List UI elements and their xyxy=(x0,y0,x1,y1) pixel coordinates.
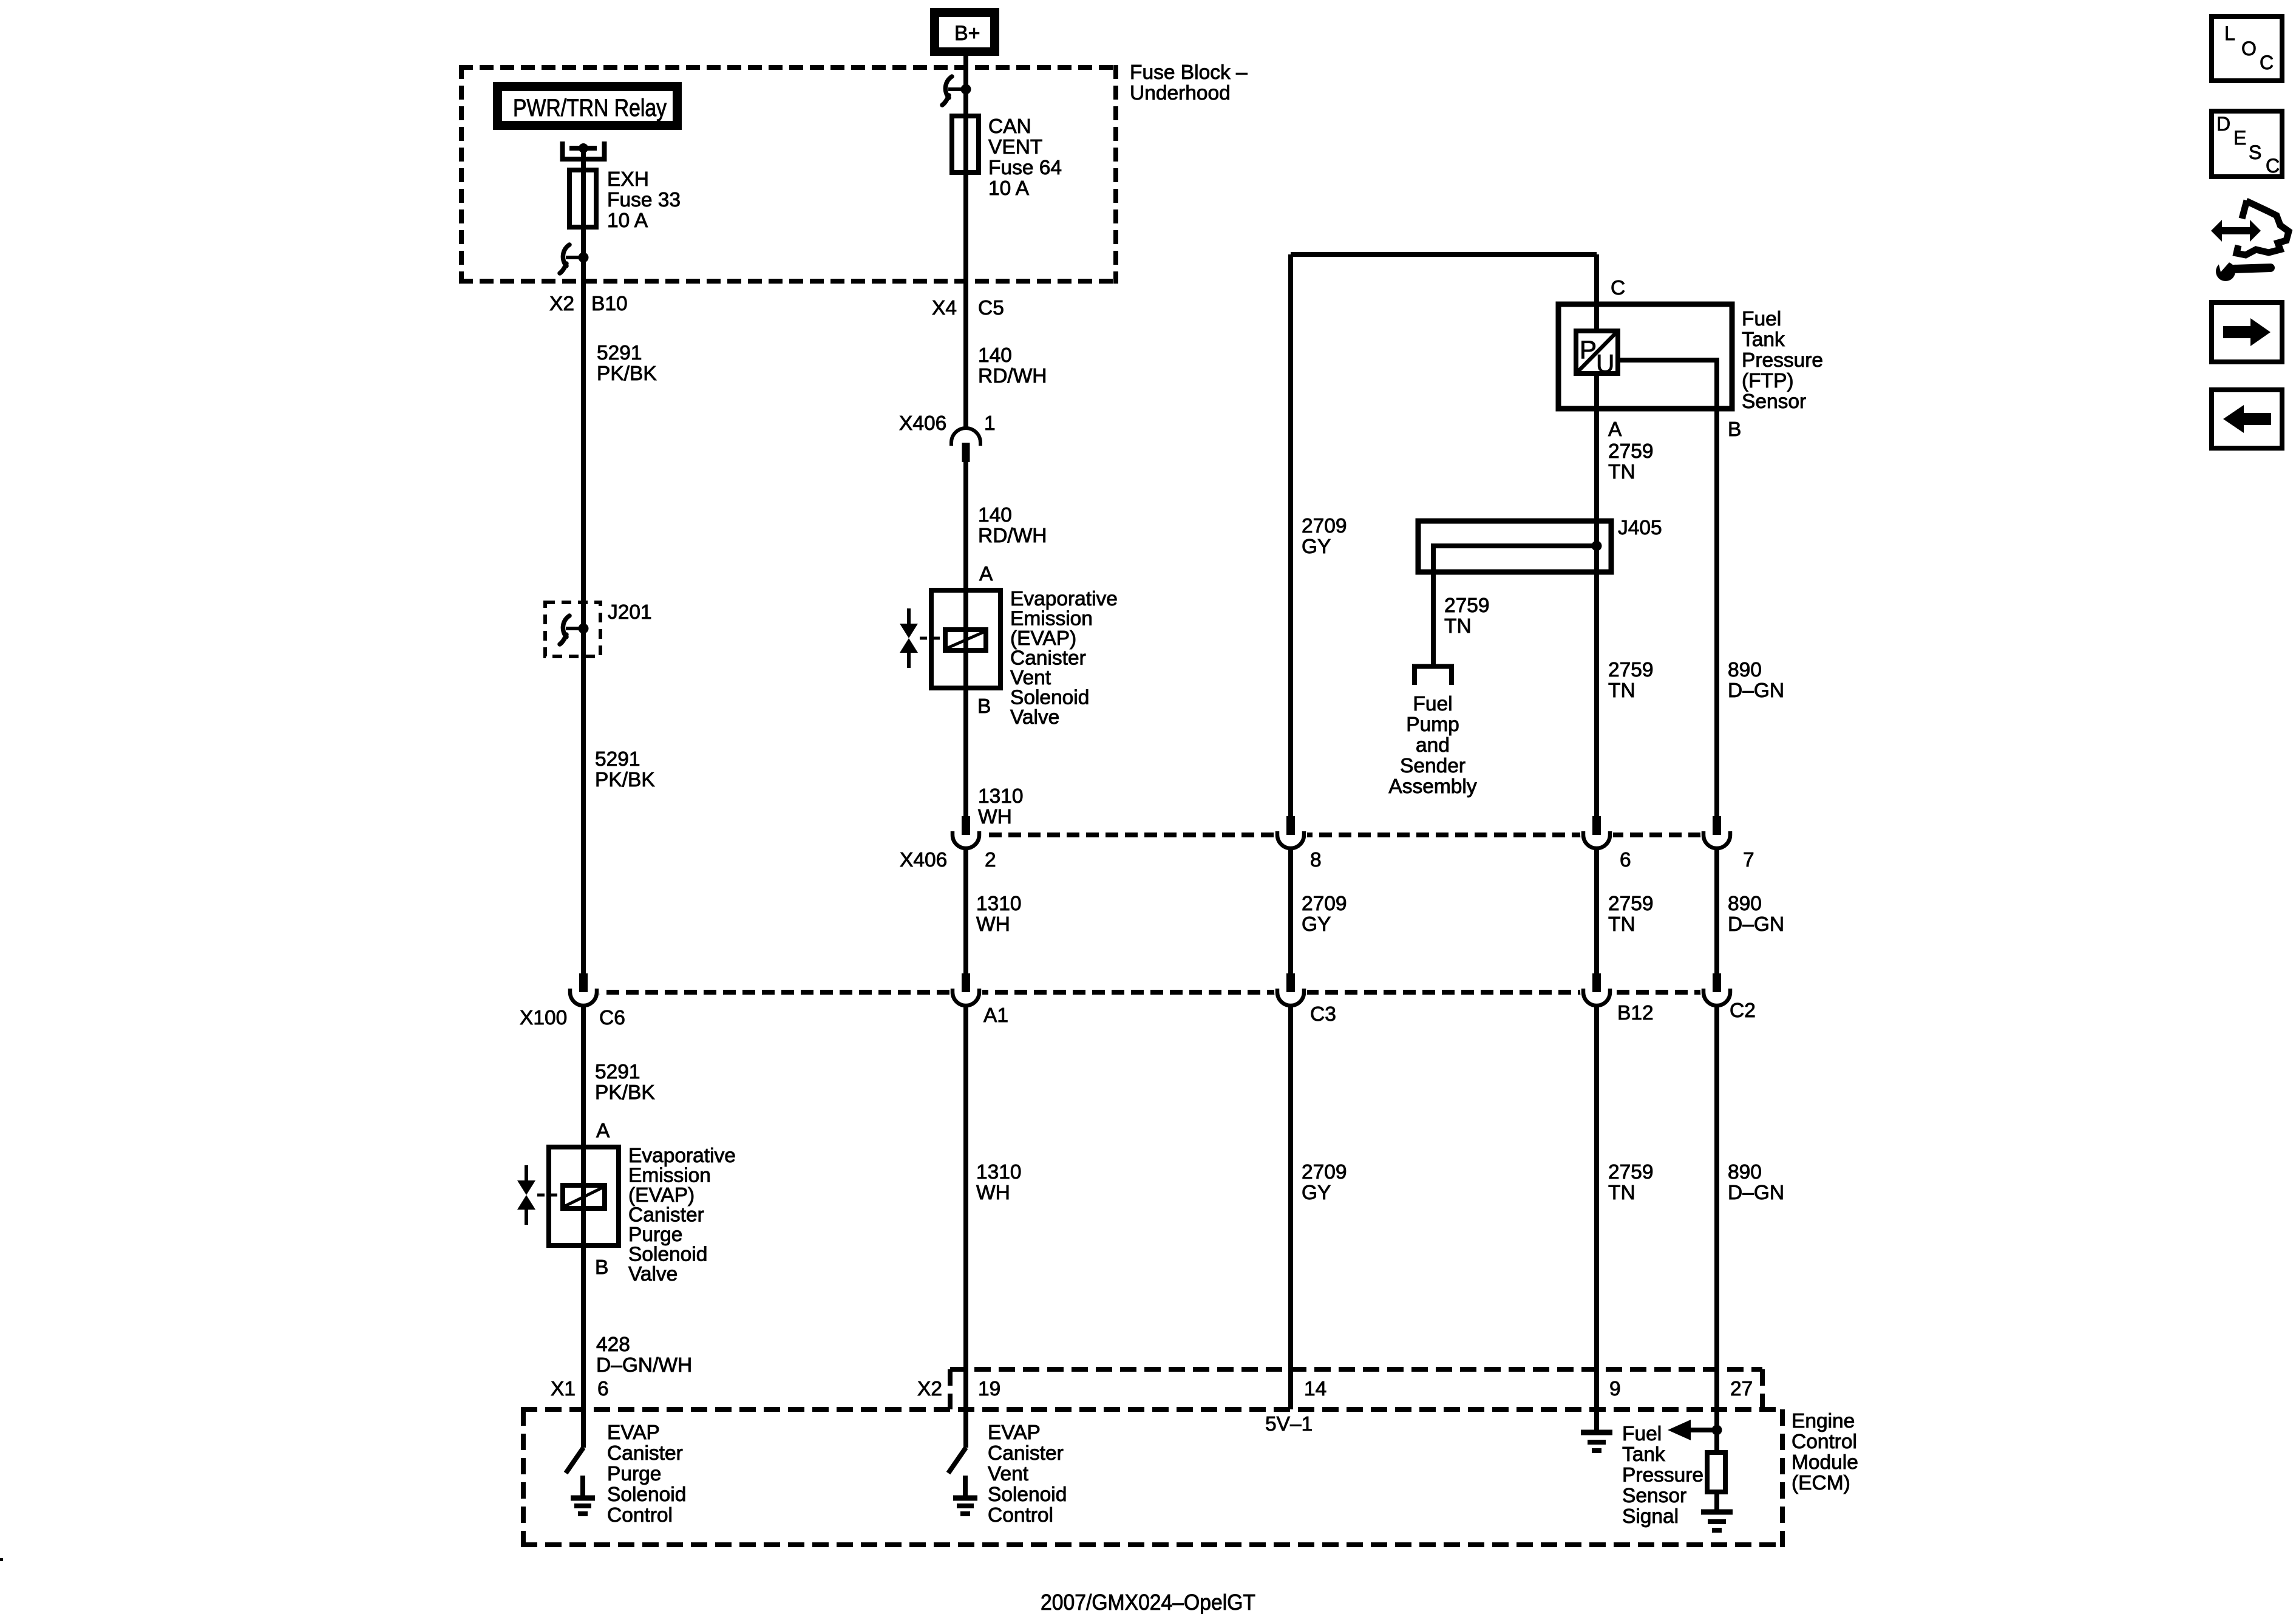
relay contact cup symbol xyxy=(563,141,605,159)
connector X2/B10 labels xyxy=(549,293,628,315)
svg-text:Fuse 33: Fuse 33 xyxy=(607,189,681,211)
svg-text:GY: GY xyxy=(1302,536,1331,558)
label 890 D-GN top xyxy=(1728,659,1784,702)
svg-text:U: U xyxy=(1596,349,1614,378)
vent valve pneumatic symbol xyxy=(900,608,918,668)
svg-text:140: 140 xyxy=(978,344,1012,367)
wire top interconnect xyxy=(1291,252,1597,257)
svg-text:Purge: Purge xyxy=(607,1463,661,1485)
X100 row dashed line xyxy=(568,990,1731,995)
svg-text:D–GN/WH: D–GN/WH xyxy=(596,1354,692,1377)
svg-text:Valve: Valve xyxy=(628,1263,678,1285)
svg-text:B: B xyxy=(595,1256,608,1279)
ECM pin 27 network xyxy=(1668,1409,1725,1510)
X406 row dashed line xyxy=(950,833,1731,837)
svg-text:S: S xyxy=(2249,141,2261,163)
svg-text:J201: J201 xyxy=(608,601,652,624)
svg-text:Control: Control xyxy=(988,1504,1053,1527)
svg-text:Valve: Valve xyxy=(1010,706,1059,729)
svg-text:B+: B+ xyxy=(954,22,980,45)
svg-text:Canister: Canister xyxy=(607,1442,683,1465)
svg-text:Emission: Emission xyxy=(628,1165,711,1187)
svg-text:A: A xyxy=(596,1120,610,1142)
svg-text:890: 890 xyxy=(1728,893,1762,915)
label 428 D-GN/WH xyxy=(596,1333,692,1377)
svg-text:(ECM): (ECM) xyxy=(1792,1472,1850,1494)
svg-text:B: B xyxy=(977,695,991,718)
svg-text:2759: 2759 xyxy=(1444,594,1490,617)
svg-text:890: 890 xyxy=(1728,659,1762,681)
svg-text:2709: 2709 xyxy=(1302,1161,1347,1183)
labels below X100 row xyxy=(1302,1161,1784,1204)
ECM label xyxy=(1792,1410,1858,1494)
FTP sensor text xyxy=(1742,308,1823,413)
svg-text:Evaporative: Evaporative xyxy=(1010,588,1118,610)
svg-text:Sender: Sender xyxy=(1400,755,1466,777)
splice J405 box xyxy=(1418,521,1611,572)
label 140 RD/WH lower xyxy=(978,504,1047,547)
svg-text:Engine: Engine xyxy=(1792,1410,1855,1432)
connector X406 pin 6 xyxy=(1580,816,1613,852)
svg-text:J405: J405 xyxy=(1618,517,1662,539)
fuse block underhood dashed box xyxy=(459,65,1118,284)
svg-text:PWR/TRN Relay: PWR/TRN Relay xyxy=(513,95,667,121)
wire W5 FTP-B down xyxy=(1714,409,1719,1430)
splice J201 connector xyxy=(560,616,589,644)
svg-text:Sensor: Sensor xyxy=(1622,1485,1686,1507)
svg-text:and: and xyxy=(1416,734,1450,757)
svg-text:140: 140 xyxy=(978,504,1012,526)
label 140 RD/WH upper xyxy=(978,344,1047,387)
FTP internal wires xyxy=(1594,304,1599,409)
svg-text:L: L xyxy=(2224,22,2235,44)
svg-text:E: E xyxy=(2233,127,2246,149)
purge valve dashed link xyxy=(537,1194,564,1197)
svg-text:A: A xyxy=(1608,418,1622,441)
vent valve text xyxy=(1010,588,1118,729)
svg-text:1310: 1310 xyxy=(976,1161,1022,1183)
svg-text:WH: WH xyxy=(978,806,1012,828)
svg-text:B10: B10 xyxy=(591,293,628,315)
svg-text:10 A: 10 A xyxy=(988,177,1030,200)
wire B+ down through fuse block xyxy=(963,56,968,118)
svg-text:19: 19 xyxy=(978,1378,1000,1400)
connector X406 pin 7 xyxy=(1700,816,1733,852)
svg-text:WH: WH xyxy=(976,1182,1010,1204)
svg-text:EXH: EXH xyxy=(607,168,649,191)
svg-text:27: 27 xyxy=(1730,1378,1753,1400)
svg-text:2007/GMX024–OpelGT: 2007/GMX024–OpelGT xyxy=(1041,1590,1255,1614)
svg-text:Solenoid: Solenoid xyxy=(607,1483,686,1506)
svg-text:(EVAP): (EVAP) xyxy=(628,1184,695,1207)
svg-text:(FTP): (FTP) xyxy=(1742,370,1794,392)
svg-text:Solenoid: Solenoid xyxy=(628,1244,707,1266)
svg-text:TN: TN xyxy=(1608,461,1635,483)
svg-text:428: 428 xyxy=(596,1333,630,1356)
svg-text:TN: TN xyxy=(1444,615,1472,638)
label 1310 WH mid xyxy=(976,893,1022,936)
label 5291 PK/BK upper xyxy=(597,342,657,385)
svg-text:Control: Control xyxy=(607,1504,673,1527)
svg-text:CAN: CAN xyxy=(988,115,1031,138)
svg-text:1310: 1310 xyxy=(976,893,1022,915)
svg-text:Fuel: Fuel xyxy=(1622,1423,1662,1445)
svg-text:A: A xyxy=(979,563,993,585)
wire X406-1 to vent valve xyxy=(963,462,968,590)
svg-text:X100: X100 xyxy=(520,1007,567,1029)
svg-text:Assembly: Assembly xyxy=(1388,775,1476,798)
svg-text:D–GN: D–GN xyxy=(1728,679,1784,702)
svg-text:Purge: Purge xyxy=(628,1224,682,1246)
label 5291 PK/BK lower xyxy=(595,1061,655,1104)
connector X406 pin 8 xyxy=(1274,816,1307,852)
svg-text:Pump: Pump xyxy=(1406,713,1459,736)
svg-text:5291: 5291 xyxy=(597,342,642,364)
ECM switch W1 xyxy=(566,1409,583,1496)
svg-text:X1: X1 xyxy=(551,1378,576,1400)
svg-text:O: O xyxy=(2241,38,2257,60)
labels between rows xyxy=(1302,893,1784,936)
svg-text:TN: TN xyxy=(1608,1182,1635,1204)
svg-text:890: 890 xyxy=(1728,1161,1762,1183)
vent valve dashed link xyxy=(920,637,946,640)
J405 internal wire + junction xyxy=(1433,546,1597,664)
svg-text:B: B xyxy=(1728,418,1741,441)
svg-text:Tank: Tank xyxy=(1622,1443,1665,1466)
fuse EXH label xyxy=(607,168,681,232)
svg-text:Sensor: Sensor xyxy=(1742,390,1806,413)
stray mark xyxy=(0,1558,3,1561)
svg-text:RD/WH: RD/WH xyxy=(978,525,1047,547)
svg-text:Tank: Tank xyxy=(1742,329,1785,351)
svg-text:C2: C2 xyxy=(1730,999,1756,1022)
svg-text:6: 6 xyxy=(597,1378,609,1400)
svg-text:1310: 1310 xyxy=(978,785,1024,808)
svg-text:2759: 2759 xyxy=(1608,659,1654,681)
ECM pin labels 14 9 27 xyxy=(1304,1378,1753,1400)
wire relay to fuse EXH xyxy=(581,148,586,172)
wire fuse EXH to connector xyxy=(581,227,586,284)
svg-text:RD/WH: RD/WH xyxy=(978,365,1047,387)
svg-text:2: 2 xyxy=(985,849,996,871)
fuel pump text xyxy=(1388,693,1476,798)
svg-text:Canister: Canister xyxy=(988,1442,1064,1465)
svg-text:Emission: Emission xyxy=(1010,608,1093,630)
fuse CAN VENT Fuse 64 xyxy=(952,116,979,172)
svg-text:D–GN: D–GN xyxy=(1728,913,1784,936)
svg-text:C6: C6 xyxy=(599,1007,625,1029)
ECM main dashed box xyxy=(521,1409,1782,1547)
svg-text:GY: GY xyxy=(1302,913,1331,936)
svg-text:A1: A1 xyxy=(983,1004,1008,1027)
fuel tank pressure signal text xyxy=(1622,1423,1703,1528)
ground ECM W2 xyxy=(953,1498,977,1514)
svg-text:VENT: VENT xyxy=(988,136,1042,158)
svg-text:PK/BK: PK/BK xyxy=(597,363,657,385)
svg-text:WH: WH xyxy=(976,913,1010,936)
svg-text:C3: C3 xyxy=(1310,1003,1336,1026)
connector X4/C5 labels xyxy=(932,297,1004,319)
svg-text:Solenoid: Solenoid xyxy=(988,1483,1067,1506)
fuse block label xyxy=(1130,61,1248,104)
svg-text:Fuel: Fuel xyxy=(1742,308,1781,330)
svg-text:X406: X406 xyxy=(900,849,947,871)
label 1310 WH upper xyxy=(978,785,1024,828)
ECM X2 raised connector dashed edge xyxy=(950,1369,1762,1409)
svg-text:Vent: Vent xyxy=(1010,667,1051,689)
svg-text:Signal: Signal xyxy=(1622,1505,1679,1528)
wire W3 2709 GY xyxy=(1288,254,1293,1409)
svg-text:Control: Control xyxy=(1792,1431,1857,1453)
ECM pin 9 ground xyxy=(1594,1409,1599,1430)
svg-text:Solenoid: Solenoid xyxy=(1010,687,1089,709)
fuse CAN VENT label xyxy=(988,115,1062,200)
svg-text:(EVAP): (EVAP) xyxy=(1010,627,1076,650)
splice J201 dashed box xyxy=(545,602,600,656)
ECM W2 text xyxy=(988,1422,1067,1527)
PWR/TRN Relay box xyxy=(493,82,682,130)
fuel pump bracket terminal xyxy=(1415,667,1452,686)
connector X100 pin C3 xyxy=(1274,973,1307,1009)
label 2759 TN branch xyxy=(1444,594,1490,638)
labels X406 / 1 xyxy=(899,412,996,435)
ECM switch W2 xyxy=(948,1409,966,1496)
svg-text:5V–1: 5V–1 xyxy=(1265,1413,1313,1435)
svg-text:Underhood: Underhood xyxy=(1130,82,1231,104)
ground ECM W1 xyxy=(571,1498,595,1514)
FTP sensor box xyxy=(1558,304,1732,409)
svg-text:PK/BK: PK/BK xyxy=(595,769,655,791)
svg-text:Pressure: Pressure xyxy=(1742,349,1823,372)
label 2759 TN mid xyxy=(1608,659,1654,702)
back arrow icon xyxy=(2212,390,2282,448)
svg-text:14: 14 xyxy=(1304,1378,1326,1400)
ECM pin X1/6 labels xyxy=(551,1378,609,1400)
svg-text:PK/BK: PK/BK xyxy=(595,1081,655,1104)
LOC icon xyxy=(2212,16,2282,81)
svg-text:X2: X2 xyxy=(549,293,574,315)
svg-text:Canister: Canister xyxy=(1010,647,1086,670)
svg-text:GY: GY xyxy=(1302,1182,1331,1204)
wire fuse CAN VENT to X4 xyxy=(963,172,968,428)
connector X100 pin C2 xyxy=(1700,973,1733,1009)
purge valve text xyxy=(628,1145,736,1285)
svg-text:Module: Module xyxy=(1792,1451,1858,1474)
ECM W1 text xyxy=(607,1422,686,1527)
svg-text:TN: TN xyxy=(1608,679,1635,702)
label 2709 GY top xyxy=(1302,515,1347,558)
connector X100 pin C6 xyxy=(567,973,600,1009)
svg-text:C: C xyxy=(1611,277,1625,299)
label 1310 WH lower xyxy=(976,1161,1022,1204)
svg-text:Fuse Block –: Fuse Block – xyxy=(1130,61,1248,84)
svg-text:Canister: Canister xyxy=(628,1204,704,1227)
svg-text:5291: 5291 xyxy=(595,748,640,771)
wire purge valve to ECM xyxy=(581,1245,586,1409)
svg-text:10 A: 10 A xyxy=(607,209,648,232)
svg-text:2759: 2759 xyxy=(1608,440,1654,463)
svg-text:X2: X2 xyxy=(917,1378,942,1400)
DESC icon xyxy=(2212,111,2282,177)
in-line connector X406 pin 1 (inverted) xyxy=(951,428,980,462)
wire C pin up xyxy=(1594,254,1599,304)
wire vent valve to X406 row xyxy=(963,688,968,999)
svg-text:2759: 2759 xyxy=(1608,893,1654,915)
forward arrow icon xyxy=(2212,302,2282,362)
in-line connector under B+ xyxy=(942,77,971,105)
ECM pin X2/19 labels xyxy=(917,1378,1000,1400)
wire 5291 upper xyxy=(581,284,586,999)
svg-text:D: D xyxy=(2216,113,2230,135)
ground ECM pin 27 xyxy=(1701,1512,1733,1530)
wire X100 to purge valve xyxy=(581,992,586,1147)
wire W4 FTP-A down xyxy=(1594,409,1599,1430)
connector X100 pin A1 xyxy=(949,973,982,1009)
connector X100 pin B12 xyxy=(1580,973,1613,1009)
svg-text:X4: X4 xyxy=(932,297,957,319)
svg-text:2709: 2709 xyxy=(1302,893,1347,915)
label 2759 TN (A) xyxy=(1608,440,1654,483)
svg-text:6: 6 xyxy=(1620,849,1631,871)
svg-text:Pressure: Pressure xyxy=(1622,1464,1703,1486)
connector X406 pin 2 xyxy=(949,816,982,852)
svg-text:9: 9 xyxy=(1609,1378,1621,1400)
svg-text:D–GN: D–GN xyxy=(1728,1182,1784,1204)
in-line connector on left wire xyxy=(560,245,589,273)
svg-text:Evaporative: Evaporative xyxy=(628,1145,736,1167)
svg-text:X406: X406 xyxy=(899,412,946,435)
svg-text:2759: 2759 xyxy=(1608,1161,1654,1183)
hand/wrench nav icon xyxy=(2211,200,2289,281)
svg-text:C: C xyxy=(2266,155,2280,177)
svg-text:EVAP: EVAP xyxy=(607,1422,660,1444)
svg-text:TN: TN xyxy=(1608,913,1635,936)
X406 row labels xyxy=(900,849,1754,871)
svg-text:1: 1 xyxy=(984,412,996,435)
B+ power symbol xyxy=(930,8,999,56)
svg-text:Vent: Vent xyxy=(988,1463,1029,1485)
label 5291 PK/BK mid xyxy=(595,748,655,791)
svg-text:Fuse 64: Fuse 64 xyxy=(988,157,1062,179)
X100 row labels xyxy=(520,999,1756,1029)
EVAP canister purge solenoid valve xyxy=(549,1147,619,1245)
svg-text:C: C xyxy=(2260,52,2274,73)
svg-text:B12: B12 xyxy=(1617,1002,1654,1024)
FTP P/U transducer symbol xyxy=(1576,331,1618,378)
svg-text:C5: C5 xyxy=(978,297,1004,319)
svg-text:P: P xyxy=(1580,335,1597,364)
svg-text:7: 7 xyxy=(1743,849,1754,871)
svg-text:5291: 5291 xyxy=(595,1061,640,1083)
svg-text:Fuel: Fuel xyxy=(1413,693,1452,715)
svg-text:2709: 2709 xyxy=(1302,515,1347,537)
svg-text:EVAP: EVAP xyxy=(988,1422,1041,1444)
wire vent to ECM xyxy=(963,992,968,1409)
svg-text:8: 8 xyxy=(1310,849,1322,871)
fuse EXH Fuse 33 xyxy=(569,170,596,227)
purge valve pneumatic symbol xyxy=(517,1165,535,1225)
EVAP canister vent solenoid valve xyxy=(931,590,1000,688)
